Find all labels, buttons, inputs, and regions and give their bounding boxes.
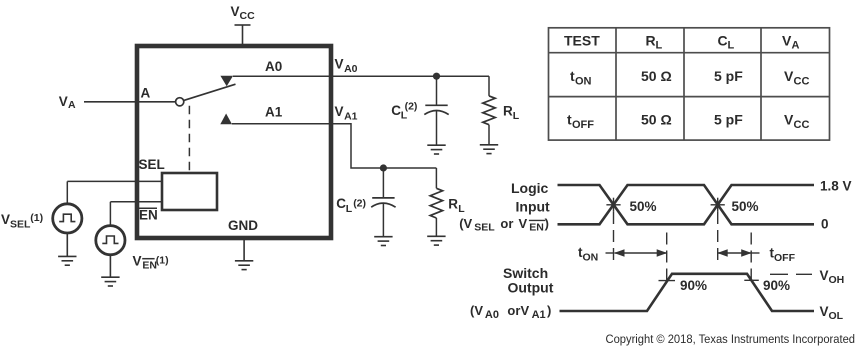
svg-text:SEL: SEL: [139, 157, 165, 172]
svg-text:V: V: [335, 104, 344, 119]
svg-text:Input: Input: [516, 199, 551, 215]
value label RL for A0 load: [503, 104, 520, 122]
svg-text:TEST: TEST: [564, 32, 600, 48]
svg-text:CC: CC: [240, 10, 256, 22]
node junction VA1 load: [380, 164, 387, 171]
svg-text:V: V: [1, 212, 10, 227]
value label CL(2) for A0 load: [391, 100, 417, 121]
wire VSEL to SEL pin: [67, 180, 162, 182]
power VCC terminal stub: [235, 25, 251, 46]
resistor RL (A1 load): [430, 168, 442, 236]
pin EN label (active low, overline): [139, 208, 158, 223]
node VA input label: [59, 94, 76, 111]
crossing tick mark 1: [606, 198, 620, 212]
svg-text:A1: A1: [344, 111, 358, 123]
switch pole contact circle: [176, 98, 184, 106]
svg-text:A1: A1: [265, 105, 283, 120]
node VA0 label: [335, 57, 358, 75]
svg-text:EN: EN: [139, 208, 158, 223]
test conditions table grid: [549, 28, 830, 140]
svg-text:OFF: OFF: [572, 119, 594, 131]
svg-text:A1: A1: [532, 309, 546, 321]
svg-text:5 pF: 5 pF: [714, 112, 743, 128]
dashed measure line at output fall: [750, 233, 752, 285]
wire VEN to EN pin: [110, 201, 162, 203]
svg-text:OH: OH: [829, 274, 845, 286]
ground (RL A0): [480, 145, 498, 154]
node VA1 label: [335, 104, 358, 122]
tOFF leader line: [751, 252, 759, 254]
svg-text:L: L: [656, 39, 663, 51]
svg-text:1.8 V: 1.8 V: [820, 179, 852, 194]
waveform logic input trace 2 (starts low): [558, 185, 815, 224]
svg-text:L: L: [728, 39, 735, 51]
svg-text:50%: 50%: [630, 199, 657, 214]
level label VOL: [820, 304, 844, 322]
resistor RL (A0 load): [483, 76, 495, 145]
svg-text:V: V: [782, 32, 792, 48]
svg-text:50%: 50%: [732, 199, 759, 214]
dashed measure line at output rise: [666, 233, 668, 282]
svg-text:OL: OL: [829, 310, 844, 322]
tON measurement arrow: [614, 249, 667, 256]
switch blade (wiper): [184, 84, 236, 100]
svg-text:Output: Output: [508, 279, 554, 295]
node junction VA0 load: [433, 73, 440, 80]
svg-text:C: C: [336, 196, 346, 211]
control linkage dashed line: [188, 106, 190, 173]
capacitor CL (A1 load): [371, 168, 395, 237]
svg-text:Copyright © 2018, Texas Instru: Copyright © 2018, Texas Instruments Inco…: [606, 332, 856, 346]
svg-text:(1): (1): [30, 212, 43, 224]
svg-text:CC: CC: [794, 119, 810, 131]
svg-text:0: 0: [821, 216, 829, 231]
svg-text:L: L: [513, 110, 520, 122]
label tON: [578, 245, 598, 264]
svg-text:(2): (2): [353, 197, 366, 209]
svg-text:(1): (1): [156, 255, 169, 267]
svg-text:R: R: [646, 32, 656, 48]
svg-text:): ): [545, 216, 549, 231]
svg-text:V: V: [784, 68, 794, 84]
svg-text:V: V: [521, 303, 530, 318]
svg-text:R: R: [448, 197, 458, 212]
svg-text:EN: EN: [529, 222, 544, 234]
level label VOH: [820, 268, 845, 286]
svg-text:5 pF: 5 pF: [714, 68, 743, 84]
svg-text:C: C: [718, 32, 728, 48]
svg-text:): ): [547, 303, 551, 318]
svg-text:or: or: [507, 303, 520, 318]
svg-text:OFF: OFF: [774, 252, 796, 264]
svg-text:SEL: SEL: [10, 218, 31, 230]
switch throw contact A1 (triangle): [220, 114, 232, 125]
table cell tOFF: [567, 112, 594, 132]
svg-text:C: C: [391, 103, 401, 118]
dashed measure line at crossing 1: [613, 212, 615, 261]
wire VEN source to ground: [109, 255, 111, 277]
ground (CL A1): [374, 237, 392, 246]
power VCC label: [231, 4, 256, 22]
svg-text:V: V: [231, 4, 240, 19]
svg-text:V: V: [133, 254, 142, 269]
pulse source VEN: [96, 226, 125, 255]
svg-text:V: V: [820, 304, 829, 319]
wire VA input to pin A: [84, 101, 175, 103]
svg-text:L: L: [458, 203, 465, 215]
control logic block: [162, 173, 217, 210]
label tOFF: [770, 246, 796, 265]
svg-text:L: L: [346, 203, 353, 215]
svg-text:(2): (2): [405, 100, 418, 112]
90% tick mark falling edge: [744, 279, 759, 281]
table header RL: [646, 32, 663, 51]
value label CL(2) for A1 load: [336, 196, 366, 215]
svg-text:SEL: SEL: [474, 222, 495, 234]
pulse source VSEL: [53, 204, 82, 233]
table cell tON: [570, 68, 592, 88]
waveform label Logic Input (VSEL or VEN): [459, 180, 550, 234]
svg-text:V: V: [335, 57, 344, 72]
dashed leader to VOH level: [770, 273, 812, 275]
svg-text:50 Ω: 50 Ω: [641, 68, 672, 84]
svg-text:90%: 90%: [763, 278, 790, 293]
waveform label Switch Output (VA0 or VA1): [470, 265, 554, 321]
wire A1 to load node: [232, 124, 437, 168]
svg-text:V: V: [784, 112, 794, 128]
svg-text:V: V: [820, 268, 829, 283]
svg-text:A: A: [141, 86, 151, 101]
wire VSEL source to SEL net: [66, 181, 68, 203]
svg-text:(V: (V: [459, 216, 472, 231]
svg-text:A0: A0: [485, 309, 499, 321]
table cell VA=VCC (tON row): [784, 68, 809, 88]
waveform switch output trace: [560, 274, 815, 311]
svg-text:or: or: [500, 216, 513, 231]
switch device U1 outline box: [137, 46, 331, 238]
wire A0 to load node: [233, 75, 489, 77]
ground (RL A1): [427, 236, 445, 245]
ground (VSEL source): [58, 256, 76, 265]
table cell VA=VCC (tOFF row): [784, 112, 809, 132]
tON leader line: [606, 252, 614, 254]
wire VEN source to EN net: [109, 202, 111, 226]
90% tick mark rising edge: [659, 280, 676, 282]
svg-text:(V: (V: [470, 303, 483, 318]
switch throw contact A0 (triangle): [220, 76, 233, 87]
svg-text:A: A: [68, 99, 76, 111]
svg-text:A: A: [792, 39, 800, 51]
svg-text:50 Ω: 50 Ω: [641, 112, 672, 128]
svg-text:CC: CC: [794, 76, 810, 88]
svg-text:EN: EN: [142, 259, 157, 271]
dashed measure line at crossing 2: [717, 212, 719, 261]
ground (CL A0): [427, 145, 445, 154]
value label RL for A1 load: [448, 197, 465, 216]
svg-text:90%: 90%: [680, 278, 707, 293]
crossing tick mark 2: [711, 198, 725, 212]
label VSEL(1): [1, 212, 43, 231]
svg-text:R: R: [503, 104, 513, 119]
capacitor CL (A0 load): [424, 76, 448, 145]
label VEN(1): [133, 254, 169, 272]
svg-text:GND: GND: [228, 218, 258, 233]
table header VA: [782, 32, 800, 51]
svg-text:Logic: Logic: [511, 180, 549, 196]
svg-text:V: V: [519, 216, 528, 231]
ground (VEN source): [101, 277, 119, 286]
svg-text:A0: A0: [344, 63, 358, 75]
ground (GND pin): [235, 261, 253, 270]
tOFF measurement arrow: [717, 249, 752, 256]
svg-text:ON: ON: [583, 252, 599, 264]
svg-text:ON: ON: [575, 76, 592, 88]
wire VSEL source to ground: [66, 233, 68, 256]
svg-text:V: V: [59, 94, 68, 109]
waveform logic input trace 1 (starts high): [558, 185, 815, 224]
table header CL: [718, 32, 735, 51]
svg-text:A0: A0: [265, 59, 282, 74]
wire GND pin to ground: [243, 240, 245, 261]
